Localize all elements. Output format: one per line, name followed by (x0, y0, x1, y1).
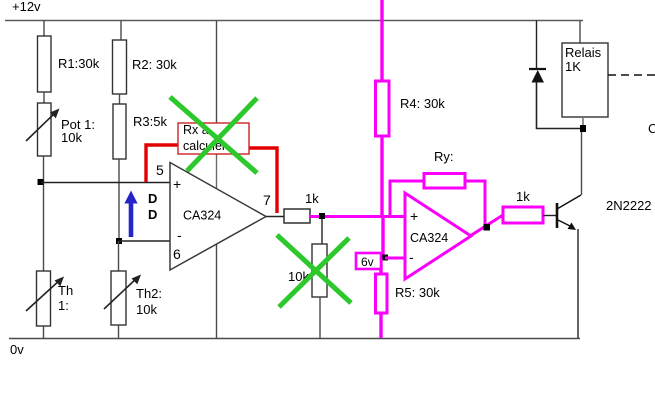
source 6v box (356, 253, 381, 269)
0v rail (9, 339, 580, 358)
svg-text:R4: 30k: R4: 30k (400, 96, 445, 111)
node junction Ry/output (484, 224, 491, 231)
wire rail to R1 (43, 21, 45, 37)
wire rail down behind Rx box (upper) (216, 21, 218, 124)
svg-text:1:: 1: (58, 298, 69, 313)
wire node to Th2 (118, 241, 120, 271)
wire relay bottom (582, 117, 584, 128)
wire emitter to 0v (577, 229, 579, 338)
magenta wire Ry left branch (390, 181, 424, 216)
svg-text:C: C (648, 121, 655, 136)
svg-text:6: 6 (173, 246, 181, 262)
svg-text:CA324: CA324 (183, 209, 221, 223)
svg-text:6v: 6v (361, 255, 374, 269)
svg-text:0v: 0v (10, 342, 24, 357)
svg-text:-: - (409, 249, 414, 265)
wire Pot1 to Th1 (43, 156, 45, 271)
wire diode to relay node (537, 82, 581, 129)
thermistor Th1 (26, 271, 73, 326)
blue arrow D (124, 191, 157, 238)
green cross over Rx (170, 97, 257, 173)
thermistor Th2 (104, 271, 162, 325)
wire rail to diode (536, 21, 538, 70)
op-amp U1 CA324 (156, 162, 271, 270)
wire Th2 to 0v (118, 325, 120, 338)
svg-text:2N2222: 2N2222 (606, 198, 652, 213)
svg-text:1K: 1K (565, 59, 581, 74)
relay Relais 1K (562, 43, 608, 117)
diode D1 flyback (529, 69, 546, 83)
wire node to 10k (321, 219, 323, 244)
svg-text:-: - (177, 227, 182, 243)
wire Rx box to op-amp body (middle) (216, 154, 218, 189)
svg-text:Relais: Relais (565, 45, 602, 60)
resistor 1k base (magenta box) (503, 189, 543, 223)
node junction 6v/R5/minus (382, 255, 388, 261)
wire R3 down to inverting node (118, 159, 120, 241)
resistor R5 30k (magenta) (376, 274, 441, 313)
svg-text:7: 7 (263, 192, 271, 208)
svg-text:D: D (148, 207, 157, 222)
magenta wire R5 to 0v (379, 313, 382, 338)
green cross over 10k (277, 235, 351, 307)
op-amp U2 CA324 (magenta comparator) (405, 193, 471, 279)
resistor R1 (38, 36, 100, 92)
wire rail to relay (579, 21, 581, 44)
magenta wire minus node to R5 (379, 259, 382, 274)
svg-text:10k: 10k (136, 302, 157, 317)
+12v rail (5, 0, 583, 21)
wire R2 to R3 (119, 94, 121, 104)
wire R1 to Pot1 (43, 92, 45, 103)
dashed contact line (608, 74, 655, 76)
red wire left: plus input up to Rx (146, 145, 178, 182)
node junction R3/Th2/op-amp minus (116, 238, 122, 244)
svg-text:R1:30k: R1:30k (58, 56, 100, 71)
magenta wire Ry right branch to output (465, 181, 485, 227)
resistor R3 (113, 104, 167, 159)
svg-text:+: + (410, 208, 418, 224)
svg-text:1k: 1k (305, 191, 319, 206)
svg-text:+12v: +12v (12, 0, 41, 14)
wire 10k to 0v (319, 297, 321, 338)
node junction relay/diode/collector (580, 125, 586, 132)
wire 1k to base (543, 215, 556, 217)
resistor R4 30k (magenta) (376, 81, 446, 136)
resistor Ry (magenta) (424, 149, 465, 188)
svg-text:1k: 1k (516, 189, 530, 204)
wire collector up to relay node (581, 128, 583, 195)
resistor R2 (113, 40, 178, 94)
wire minus-input (119, 240, 170, 242)
red wire right: Rx to output (249, 148, 277, 213)
resistor Rx a calculer (red box) (178, 123, 249, 154)
magenta wire minus input (385, 257, 404, 260)
svg-text:Th: Th (58, 283, 73, 298)
wire rail to R2 (120, 21, 122, 41)
node junction Pot1/Th1/op-amp (38, 179, 44, 185)
magenta wire R4 to plus node (380, 136, 383, 218)
transistor Q1 2N2222 (557, 195, 652, 230)
resistor 10k (crossed out) (288, 244, 327, 297)
svg-text:5: 5 (156, 162, 164, 178)
magenta supply wire top to R4 (380, 0, 383, 81)
svg-text:CA324: CA324 (410, 231, 448, 245)
svg-text:10k: 10k (61, 130, 82, 145)
resistor 1k (output of U1) (284, 191, 319, 223)
svg-text:R5: 30k: R5: 30k (395, 285, 440, 300)
svg-text:D: D (148, 191, 157, 206)
svg-text:Ry:: Ry: (434, 149, 454, 164)
magenta wire plus node down to minus node (381, 215, 384, 259)
wire plus-input (41, 182, 170, 184)
potentiometer Pot1 10k (26, 103, 95, 156)
wire op-amp body to 0v (lower) (216, 244, 218, 338)
wire Th1 to 0v (43, 326, 45, 338)
svg-text:+: + (173, 176, 181, 192)
svg-text:Th2:: Th2: (136, 286, 162, 301)
svg-text:R2: 30k: R2: 30k (132, 57, 177, 72)
magenta wire 1k to comparator plus input (310, 215, 404, 218)
svg-text:R3:5k: R3:5k (133, 114, 167, 129)
wire op-amp output to 1k (266, 216, 284, 218)
node junction 1k/10k (319, 213, 325, 219)
magenta wire output U2 to 1k (470, 215, 503, 236)
